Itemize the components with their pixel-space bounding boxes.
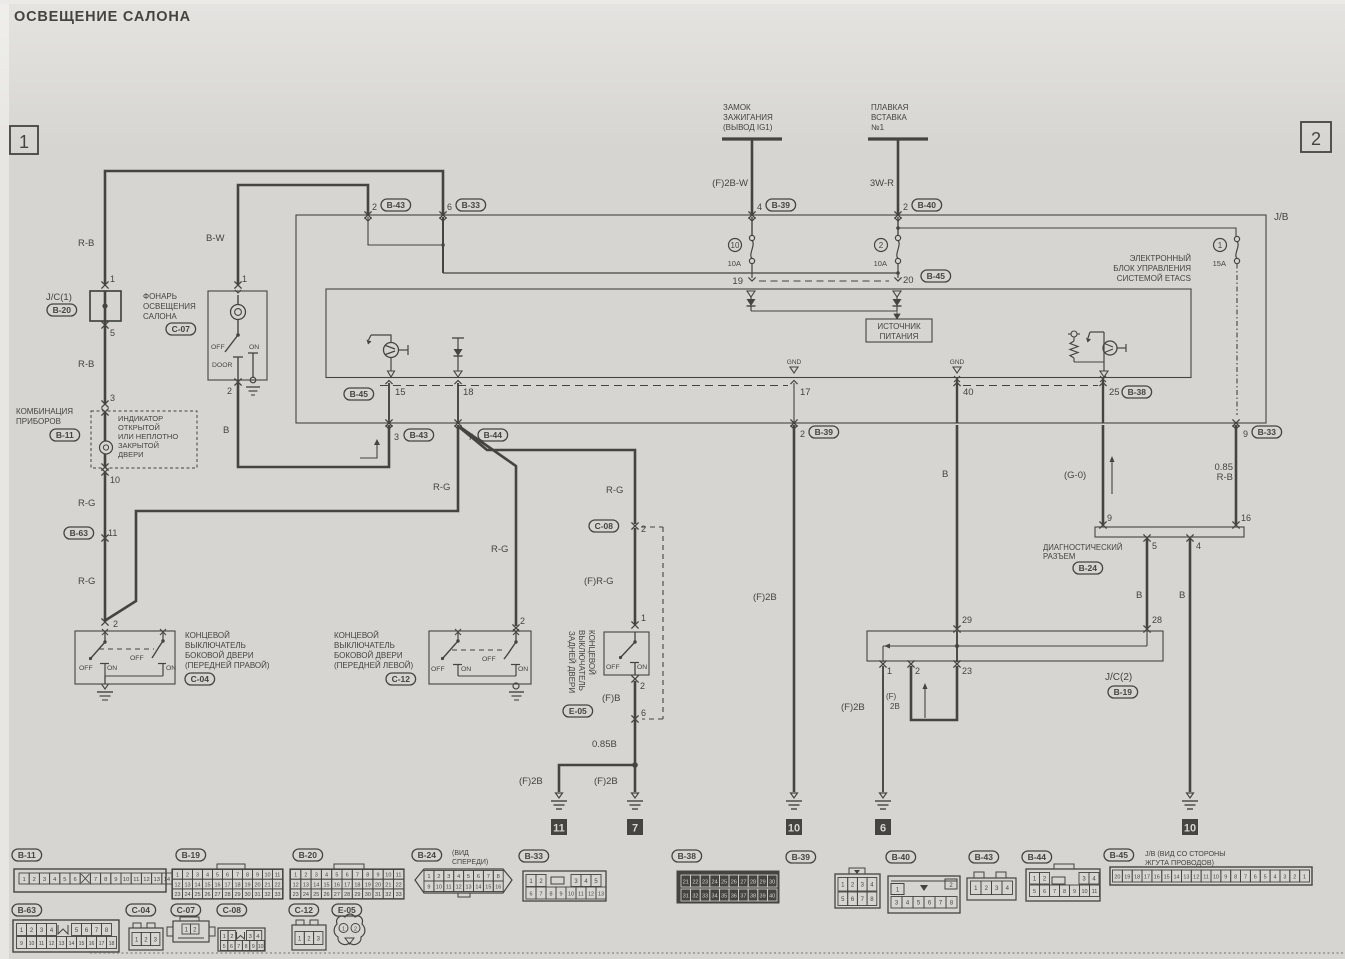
svg-text:5: 5	[223, 944, 226, 950]
svg-text:(ВИД: (ВИД	[452, 850, 469, 857]
svg-text:26: 26	[323, 892, 329, 898]
svg-text:19: 19	[365, 882, 371, 888]
svg-text:(F)2B: (F)2B	[594, 776, 618, 787]
svg-text:10: 10	[123, 877, 129, 883]
svg-text:9: 9	[252, 944, 255, 950]
svg-text:РАЗЪЕМ: РАЗЪЕМ	[1043, 552, 1075, 561]
svg-text:25: 25	[1109, 387, 1120, 398]
svg-text:B-45: B-45	[1110, 850, 1129, 860]
svg-text:10: 10	[385, 873, 391, 879]
svg-text:21: 21	[683, 879, 689, 885]
page marker 2	[1301, 122, 1331, 152]
pin 40 arrow	[953, 376, 973, 423]
wire joining diodes	[751, 310, 897, 312]
wire B lamp to pin 3 B-43	[223, 383, 389, 467]
connector B-20 pinout	[290, 849, 404, 899]
svg-text:R-G: R-G	[606, 485, 623, 496]
svg-text:10: 10	[258, 944, 264, 950]
svg-text:5: 5	[1264, 874, 1267, 880]
connector B-39 pinout	[786, 851, 880, 908]
svg-text:28: 28	[1152, 615, 1162, 625]
svg-text:5: 5	[63, 877, 66, 883]
svg-text:9: 9	[20, 941, 23, 947]
svg-text:10A: 10A	[874, 259, 887, 268]
pin 2 C-04	[101, 618, 118, 629]
svg-text:2: 2	[1311, 129, 1321, 149]
svg-text:12: 12	[1193, 874, 1199, 880]
ground C-04	[97, 684, 113, 700]
pin 18 arrow B-45	[454, 381, 473, 424]
svg-text:ОТКРЫТОЙ: ОТКРЫТОЙ	[118, 423, 160, 432]
svg-text:13: 13	[59, 941, 65, 947]
svg-text:4: 4	[206, 873, 209, 879]
wire inside J/B pin 6 down to fuse bus	[442, 217, 444, 273]
svg-text:9: 9	[377, 873, 380, 879]
door switch box C-04 (front right)	[75, 631, 175, 684]
svg-text:21: 21	[385, 882, 391, 888]
pin 23 J/C(2)	[953, 660, 972, 676]
svg-text:14: 14	[475, 885, 481, 891]
svg-text:11: 11	[133, 877, 139, 883]
C-04 switch contacts	[79, 629, 176, 684]
pin 16 diagnostic connector	[1232, 513, 1251, 529]
ground at lamp ON contact	[246, 377, 260, 395]
svg-text:11: 11	[1203, 874, 1209, 880]
diagnostic connector box B-24	[1043, 527, 1244, 574]
svg-text:11: 11	[275, 873, 281, 879]
svg-text:ИСТОЧНИК: ИСТОЧНИК	[877, 322, 921, 331]
svg-text:8: 8	[246, 873, 249, 879]
E-05 switch contact	[606, 632, 647, 675]
svg-text:OFF: OFF	[211, 344, 225, 351]
ground C-12	[509, 683, 524, 700]
svg-text:39: 39	[760, 893, 766, 899]
svg-text:9: 9	[114, 877, 117, 883]
svg-text:6: 6	[880, 823, 886, 835]
svg-text:B-20: B-20	[53, 305, 72, 315]
C-04 label	[185, 631, 270, 685]
rear door switch vertical label	[567, 630, 596, 693]
connector B-24 pinout	[412, 849, 512, 897]
svg-text:ДВЕРИ: ДВЕРИ	[118, 450, 143, 459]
svg-text:18: 18	[354, 882, 360, 888]
svg-text:B-40: B-40	[918, 200, 937, 210]
svg-text:16: 16	[495, 885, 501, 891]
svg-text:(F)B: (F)B	[602, 693, 620, 704]
svg-text:(ВЫВОД IG1): (ВЫВОД IG1)	[723, 123, 773, 132]
svg-text:2: 2	[437, 874, 440, 880]
svg-text:10: 10	[568, 891, 574, 897]
svg-text:9: 9	[427, 885, 430, 891]
resistor R1 and terminal	[1068, 331, 1104, 362]
connector B-44 pinout	[1022, 851, 1100, 901]
svg-text:12: 12	[174, 882, 180, 888]
svg-text:12: 12	[456, 885, 462, 891]
pin 1 J/C(2)	[879, 660, 892, 676]
svg-text:R-B: R-B	[78, 238, 94, 249]
svg-text:13: 13	[1183, 874, 1189, 880]
svg-text:1: 1	[342, 927, 345, 933]
svg-text:(F)R-G: (F)R-G	[584, 576, 614, 587]
svg-text:C-08: C-08	[595, 521, 614, 531]
pin 4 diagnostic connector	[1186, 534, 1201, 551]
ETACS internal GND 2	[950, 359, 965, 373]
svg-text:(F)2B: (F)2B	[519, 776, 543, 787]
svg-text:8: 8	[104, 877, 107, 883]
pin 2 E-05	[602, 675, 645, 704]
pin 28 J/C(2)	[1143, 615, 1162, 633]
svg-text:1: 1	[242, 274, 247, 284]
svg-text:9: 9	[1107, 513, 1112, 523]
svg-text:(ПЕРЕДНЕЙ ЛЕВОЙ): (ПЕРЕДНЕЙ ЛЕВОЙ)	[334, 661, 414, 670]
diode D2 (pin 20)	[893, 291, 902, 311]
svg-text:ИЛИ НЕПЛОТНО: ИЛИ НЕПЛОТНО	[118, 432, 178, 441]
svg-text:25: 25	[313, 892, 319, 898]
svg-text:R-G: R-G	[433, 482, 450, 493]
fuse 10 (10A)	[728, 217, 755, 268]
arrow and label (F)2B at pin 2	[886, 683, 928, 718]
wire 0.85 R-B to diagnostic connector	[1215, 425, 1237, 525]
transistor Q2 (ETACS output)	[1086, 332, 1126, 377]
svg-text:20: 20	[254, 882, 260, 888]
connector C-12 pinout	[289, 904, 326, 950]
svg-text:B-39: B-39	[772, 200, 791, 210]
pin 2 J/C(2)	[907, 660, 920, 676]
wire R-G pin 7 to C-12	[460, 427, 516, 626]
svg-text:E-05: E-05	[569, 706, 587, 716]
svg-text:3: 3	[43, 877, 46, 883]
C-12 label	[334, 631, 416, 685]
page bottom edge	[90, 952, 1345, 954]
svg-text:5: 5	[1033, 889, 1036, 895]
svg-text:C-07: C-07	[172, 324, 191, 334]
svg-text:6: 6	[447, 202, 452, 212]
wire (G-0) pin 25 to diagnostic connector	[1064, 425, 1115, 525]
svg-text:БОКОВОЙ ДВЕРИ: БОКОВОЙ ДВЕРИ	[185, 651, 254, 660]
svg-text:14: 14	[69, 941, 75, 947]
svg-text:7: 7	[632, 823, 638, 835]
pin 2 C-12	[512, 616, 525, 632]
rear door switch box E-05	[604, 632, 649, 675]
connector B-33 pinout	[519, 850, 606, 901]
svg-text:7: 7	[468, 432, 473, 442]
svg-text:27: 27	[334, 892, 340, 898]
svg-text:10: 10	[1213, 874, 1219, 880]
svg-text:GND: GND	[787, 359, 802, 366]
svg-text:ON: ON	[518, 666, 528, 673]
svg-text:2: 2	[227, 386, 232, 396]
ignition switch terminal (ЗАМОК ЗАЖИГАНИЯ)	[722, 103, 782, 139]
svg-text:B-11: B-11	[56, 430, 74, 440]
svg-text:14: 14	[194, 882, 200, 888]
svg-text:7: 7	[539, 891, 542, 897]
title	[14, 9, 191, 25]
svg-text:10A: 10A	[728, 259, 741, 268]
svg-text:R-G: R-G	[78, 498, 95, 509]
svg-text:2: 2	[304, 873, 307, 879]
svg-text:2: 2	[33, 877, 36, 883]
connector B-63 pin 11	[64, 527, 117, 542]
ground 10b	[1182, 793, 1198, 835]
svg-text:E-05: E-05	[338, 905, 356, 915]
svg-text:ВСТАВКА: ВСТАВКА	[871, 113, 908, 122]
svg-text:3: 3	[110, 393, 115, 403]
svg-text:7: 7	[356, 873, 359, 879]
connector E-05 pinout	[332, 904, 365, 945]
svg-text:B-33: B-33	[525, 851, 544, 861]
svg-text:6: 6	[1043, 889, 1046, 895]
connector B-19 pinout	[172, 849, 283, 899]
J/C(2) internal bus	[883, 631, 1147, 662]
svg-text:27: 27	[214, 892, 220, 898]
svg-text:1: 1	[1303, 874, 1306, 880]
svg-text:B-19: B-19	[182, 850, 201, 860]
svg-text:3: 3	[196, 873, 199, 879]
svg-text:29: 29	[354, 892, 360, 898]
interior lamp unit label	[143, 292, 196, 335]
svg-text:9: 9	[1073, 889, 1076, 895]
diode D3 (pin 18)	[452, 338, 464, 377]
svg-text:КОНЦЕВОЙ: КОНЦЕВОЙ	[185, 631, 230, 640]
svg-text:1: 1	[22, 877, 25, 883]
svg-text:(ПЕРЕДНЕЙ ПРАВОЙ): (ПЕРЕДНЕЙ ПРАВОЙ)	[185, 661, 270, 670]
svg-text:B-20: B-20	[299, 850, 318, 860]
svg-text:0.85B: 0.85B	[592, 739, 617, 750]
svg-text:3: 3	[447, 874, 450, 880]
svg-text:ЖГУТА ПРОВОДОВ): ЖГУТА ПРОВОДОВ)	[1145, 858, 1214, 867]
pin 9 connector B-33 (bottom of J/B)	[1232, 419, 1281, 439]
svg-text:18: 18	[1134, 874, 1140, 880]
svg-text:ON: ON	[461, 666, 471, 673]
svg-text:J/C(2): J/C(2)	[1105, 672, 1132, 683]
svg-text:B-38: B-38	[678, 851, 697, 861]
svg-text:OFF: OFF	[606, 664, 620, 671]
svg-text:20: 20	[1114, 874, 1120, 880]
pin 20 arrow into ETACS	[894, 264, 950, 287]
svg-text:13: 13	[153, 877, 159, 883]
svg-text:1: 1	[294, 873, 297, 879]
svg-text:16: 16	[89, 941, 95, 947]
svg-text:ЗАМОК: ЗАМОК	[723, 103, 751, 112]
pin 6 connector B-33 (top of J/B)	[439, 199, 485, 221]
svg-text:B: B	[1179, 590, 1185, 601]
svg-text:C-08: C-08	[223, 905, 242, 915]
svg-text:5: 5	[467, 874, 470, 880]
svg-text:14: 14	[1173, 874, 1179, 880]
svg-text:5: 5	[110, 328, 115, 338]
wire inside J/B from pin 2 to pin 6 bus	[368, 217, 445, 247]
svg-text:30: 30	[244, 892, 250, 898]
svg-text:7: 7	[1244, 874, 1247, 880]
svg-text:5: 5	[1152, 541, 1157, 551]
connector B-40 pinout	[886, 851, 960, 913]
wire 3W-R battery feed	[870, 141, 898, 215]
svg-text:8: 8	[1063, 889, 1066, 895]
ETACS internal GND 1	[787, 359, 802, 373]
svg-text:GND: GND	[950, 359, 965, 366]
pin 7 connector B-44 (bottom of J/B)	[454, 419, 507, 442]
svg-text:33: 33	[702, 893, 708, 899]
svg-text:26: 26	[731, 879, 737, 885]
pin 2 connector B-39 (bottom of J/B)	[790, 419, 838, 439]
svg-text:16: 16	[1241, 513, 1251, 523]
svg-text:32: 32	[692, 893, 698, 899]
wire R-B J/C(1) to combination meter	[78, 321, 105, 404]
svg-text:16: 16	[334, 882, 340, 888]
svg-text:1: 1	[19, 132, 29, 152]
svg-text:2: 2	[186, 873, 189, 879]
svg-text:23: 23	[174, 892, 180, 898]
svg-text:2: 2	[354, 927, 357, 933]
svg-text:R-G: R-G	[491, 544, 508, 555]
svg-text:R-B: R-B	[1217, 472, 1233, 483]
svg-text:B-63: B-63	[18, 905, 37, 915]
svg-text:31: 31	[375, 892, 381, 898]
svg-text:B: B	[223, 425, 229, 436]
svg-text:3: 3	[1283, 874, 1286, 880]
svg-text:ВЫКЛЮЧАТЕЛЬ: ВЫКЛЮЧАТЕЛЬ	[334, 641, 395, 650]
connector B-43 pinout	[967, 851, 1016, 900]
svg-text:14: 14	[164, 877, 171, 883]
svg-text:23: 23	[293, 892, 299, 898]
svg-text:8: 8	[366, 873, 369, 879]
svg-text:8: 8	[549, 891, 552, 897]
svg-text:37: 37	[740, 893, 746, 899]
svg-text:5: 5	[216, 873, 219, 879]
svg-text:32: 32	[385, 892, 391, 898]
svg-text:C-04: C-04	[191, 674, 210, 684]
svg-text:(F)2B: (F)2B	[753, 592, 777, 603]
svg-text:B-19: B-19	[1114, 687, 1133, 697]
connector B-11 pinout	[12, 849, 172, 892]
svg-text:15: 15	[485, 885, 491, 891]
svg-text:1: 1	[110, 274, 115, 284]
svg-text:24: 24	[712, 879, 718, 885]
junction connector J/C(2) box	[867, 631, 1163, 698]
svg-text:28: 28	[750, 879, 756, 885]
ETACS label	[1113, 254, 1191, 283]
svg-text:B-44: B-44	[484, 430, 503, 440]
connector B-63 pinout	[12, 904, 119, 952]
wire B pin 40 to J/C(2)	[942, 425, 957, 628]
junction connector J/C(1) B-20	[46, 291, 121, 321]
svg-text:13: 13	[598, 891, 604, 897]
svg-text:15: 15	[204, 882, 210, 888]
svg-text:ПЛАВКАЯ: ПЛАВКАЯ	[871, 103, 909, 112]
svg-text:10: 10	[436, 885, 442, 891]
svg-text:ПИТАНИЯ: ПИТАНИЯ	[880, 332, 919, 341]
wire B-W from lamp to pin 2 B-43	[206, 185, 368, 284]
svg-text:36: 36	[731, 893, 737, 899]
pin 29 J/C(2)	[953, 615, 972, 633]
pin 1 C-07	[234, 274, 247, 293]
svg-text:ВЫКЛЮЧАТЕЛЬ: ВЫКЛЮЧАТЕЛЬ	[185, 641, 246, 650]
svg-text:17: 17	[1144, 874, 1150, 880]
svg-text:C-04: C-04	[132, 905, 151, 915]
svg-text:6: 6	[477, 874, 480, 880]
pin 1 J/C(1)	[101, 274, 115, 289]
svg-text:6: 6	[529, 891, 532, 897]
svg-text:2: 2	[879, 241, 884, 250]
wire pin 1 to ground 6	[841, 666, 883, 792]
svg-text:ЭЛЕКТРОННЫЙ: ЭЛЕКТРОННЫЙ	[1130, 254, 1192, 263]
svg-text:3: 3	[315, 873, 318, 879]
wire 0.85B to ground	[592, 681, 638, 768]
svg-text:9: 9	[1224, 874, 1227, 880]
svg-text:(G-0): (G-0)	[1064, 470, 1086, 481]
svg-text:7: 7	[487, 874, 490, 880]
svg-text:C-12: C-12	[295, 905, 314, 915]
svg-text:6: 6	[230, 944, 233, 950]
pin 5 diagnostic connector	[1143, 534, 1157, 551]
dashed connector line B-45 pins 19-20	[759, 280, 889, 282]
svg-text:8: 8	[497, 874, 500, 880]
pin 3 connector B-43 (bottom of J/B)	[385, 419, 433, 442]
wire inside J/B battery bus to fuse 1	[896, 226, 1236, 237]
wire R-G to door switch	[78, 472, 105, 621]
svg-text:17: 17	[344, 882, 350, 888]
svg-text:B-43: B-43	[975, 852, 994, 862]
svg-text:8: 8	[1234, 874, 1237, 880]
svg-text:J/B (ВИД СО СТОРОНЫ: J/B (ВИД СО СТОРОНЫ	[1145, 849, 1226, 858]
ground 6	[875, 793, 891, 835]
svg-text:10: 10	[110, 475, 120, 485]
wire R-G pin 7 down-left to C-04	[106, 425, 458, 620]
pin 4 connector B-39 (top of J/B)	[748, 199, 795, 221]
pin 17 arrow	[790, 381, 810, 424]
svg-text:ИНДИКАТОР: ИНДИКАТОР	[118, 414, 163, 423]
wire (F)R-G	[584, 528, 635, 624]
svg-text:(F)2B-W: (F)2B-W	[712, 178, 748, 189]
wire (F)2B pin 17 to ground 10	[753, 425, 794, 792]
svg-text:B-11: B-11	[18, 850, 36, 860]
svg-text:САЛОНА: САЛОНА	[143, 312, 177, 321]
svg-text:6: 6	[73, 877, 76, 883]
svg-text:30: 30	[769, 879, 775, 885]
junction block J/B outline	[296, 212, 1289, 423]
svg-text:40: 40	[963, 387, 974, 398]
svg-text:OFF: OFF	[130, 655, 144, 662]
svg-text:13: 13	[184, 882, 190, 888]
svg-text:22: 22	[692, 879, 698, 885]
svg-text:34: 34	[712, 893, 718, 899]
svg-text:(F)2B: (F)2B	[841, 702, 865, 713]
svg-text:13: 13	[465, 885, 471, 891]
svg-text:16: 16	[214, 882, 220, 888]
fuse bus line to fuse 2	[443, 271, 900, 275]
indicator text	[118, 414, 178, 459]
svg-text:C-07: C-07	[177, 905, 196, 915]
connector C-04 pinout	[126, 904, 163, 950]
svg-text:18: 18	[234, 882, 240, 888]
svg-text:1: 1	[223, 934, 226, 940]
page marker 1	[10, 126, 38, 154]
svg-text:13: 13	[303, 882, 309, 888]
combination meter label	[16, 407, 80, 441]
svg-text:20: 20	[903, 275, 914, 286]
svg-text:23: 23	[702, 879, 708, 885]
svg-text:17: 17	[99, 941, 105, 947]
svg-text:2: 2	[520, 616, 525, 626]
svg-text:20: 20	[375, 882, 381, 888]
svg-text:7: 7	[1053, 889, 1056, 895]
svg-text:OFF: OFF	[482, 656, 496, 663]
svg-text:11: 11	[446, 885, 452, 891]
svg-text:B-43: B-43	[410, 430, 429, 440]
svg-text:16: 16	[1154, 874, 1160, 880]
svg-text:29: 29	[234, 892, 240, 898]
wire (F)2B-W ignition feed	[712, 141, 752, 215]
